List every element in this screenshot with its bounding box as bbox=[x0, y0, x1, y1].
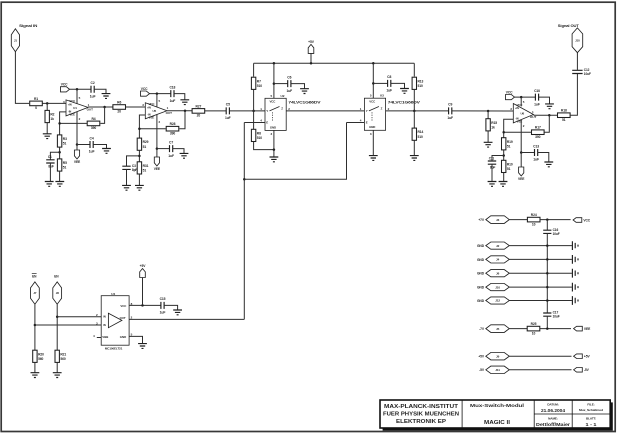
svg-text:J10: J10 bbox=[575, 39, 580, 43]
wire J3 to R24 bbox=[509, 219, 527, 221]
wire R15 to ground bbox=[487, 131, 489, 142]
wire R7 to signal line bbox=[253, 89, 255, 111]
resistor R18 bbox=[558, 113, 571, 118]
svg-text:VEE: VEE bbox=[154, 167, 161, 171]
capacitor C9 bbox=[449, 107, 452, 114]
resistor R2 bbox=[45, 110, 49, 122]
ground below U3 bbox=[369, 156, 378, 161]
ground right of C15 bbox=[173, 310, 182, 315]
svg-text:R3: R3 bbox=[63, 137, 67, 141]
node signal R7-R8 bias bbox=[252, 110, 255, 113]
svg-text:R8: R8 bbox=[257, 131, 261, 135]
svg-text:NAME:: NAME: bbox=[548, 416, 558, 420]
svg-text:R14: R14 bbox=[418, 130, 424, 134]
wire J7 down bbox=[34, 304, 36, 350]
supply VCC flag stage1 bbox=[61, 87, 70, 92]
ground below R2 bbox=[43, 134, 52, 139]
svg-text:1uF: 1uF bbox=[386, 89, 392, 93]
svg-text:C9: C9 bbox=[448, 103, 452, 107]
resistor R14 bbox=[412, 128, 416, 140]
svg-text:51: 51 bbox=[507, 144, 511, 148]
svg-text:10: 10 bbox=[532, 331, 536, 335]
resistor R29 bbox=[137, 138, 141, 150]
svg-text:51: 51 bbox=[63, 166, 67, 170]
node R19-R10-C11 bbox=[502, 154, 505, 157]
svg-text:R28: R28 bbox=[170, 122, 176, 126]
svg-text:GND: GND bbox=[270, 125, 276, 129]
capacitor C1 bbox=[46, 160, 54, 163]
wire rail down to R7 bbox=[253, 63, 255, 76]
node R29-R31-C3 bbox=[138, 155, 141, 158]
node VCC-C18-pin5 stage2 bbox=[156, 92, 159, 95]
capacitor C16 bbox=[543, 230, 551, 233]
capacitor C17 bbox=[543, 313, 551, 316]
node OUT1-R4 bbox=[103, 106, 106, 109]
capacitor C12 bbox=[572, 70, 582, 73]
svg-text:C2: C2 bbox=[91, 81, 95, 85]
capacitor C3 bbox=[122, 166, 130, 169]
svg-text:IN: IN bbox=[103, 315, 106, 319]
connector J4 bbox=[486, 256, 510, 263]
wire U3 E stub bbox=[347, 122, 365, 124]
wire comparator out to enable net bbox=[129, 318, 244, 320]
analog switch U3 74LVC1G66DV bbox=[364, 98, 385, 130]
svg-text:OUT: OUT bbox=[166, 111, 173, 115]
svg-text:J5: J5 bbox=[496, 327, 500, 331]
svg-text:U1: U1 bbox=[73, 106, 77, 110]
svg-text:E: E bbox=[266, 121, 268, 125]
ground right of C2 bbox=[102, 94, 111, 99]
svg-text:+5V: +5V bbox=[140, 264, 147, 268]
wire C3 to ground bbox=[126, 169, 128, 185]
resistor R27 bbox=[192, 109, 205, 114]
svg-text:VCC: VCC bbox=[369, 100, 376, 104]
svg-text:DATUM:: DATUM: bbox=[547, 402, 558, 406]
ground right of C18 bbox=[180, 100, 189, 105]
svg-text:U4: U4 bbox=[111, 292, 115, 296]
svg-text:Y: Y bbox=[366, 109, 368, 113]
wire R28 left to -IN node stage2 bbox=[139, 128, 165, 130]
svg-text:C4: C4 bbox=[90, 136, 94, 140]
svg-text:510: 510 bbox=[257, 84, 262, 88]
wire -IN loop stage2 bbox=[139, 115, 145, 138]
resistor R31 bbox=[137, 162, 141, 174]
svg-text:R21: R21 bbox=[60, 352, 66, 356]
ground below R14 bbox=[410, 156, 419, 161]
wire J5 to R25 bbox=[509, 328, 527, 330]
svg-text:R24: R24 bbox=[531, 213, 537, 217]
svg-text:51: 51 bbox=[143, 145, 147, 149]
wire U2 gnd pin3 bbox=[273, 130, 275, 157]
svg-text:R25: R25 bbox=[531, 322, 537, 326]
svg-text:R20: R20 bbox=[38, 352, 44, 356]
svg-text:C5: C5 bbox=[226, 103, 230, 107]
node J8 tap bbox=[56, 315, 59, 318]
wire OUT2 to R27 bbox=[192, 110, 226, 112]
svg-text:R13: R13 bbox=[418, 79, 424, 83]
svg-text:BLATT:: BLATT: bbox=[586, 416, 596, 420]
svg-text:C11: C11 bbox=[489, 156, 495, 160]
svg-text:GND: GND bbox=[477, 299, 485, 303]
node R15 tap bbox=[487, 110, 490, 113]
wire bus to C16 bbox=[546, 220, 548, 231]
wire C9 to U6 bbox=[452, 110, 514, 112]
wire R17 left to -IN node stage3 bbox=[504, 131, 532, 133]
wire OUT3 to R17 bbox=[544, 115, 549, 132]
node OUT3-R17 bbox=[548, 114, 551, 117]
wire R19 to R10 bbox=[503, 150, 505, 161]
svg-text:21.06.2004: 21.06.2004 bbox=[541, 408, 565, 413]
svg-text:R19: R19 bbox=[507, 140, 513, 144]
wire C11 to ground bbox=[491, 164, 493, 181]
svg-text:VCC: VCC bbox=[61, 83, 68, 87]
svg-text:MAGIC II: MAGIC II bbox=[484, 420, 510, 426]
svg-text:Z: Z bbox=[381, 107, 383, 111]
svg-text:U6: U6 bbox=[520, 111, 524, 115]
svg-text:Dettloff/Maier: Dettloff/Maier bbox=[536, 422, 570, 427]
node bus J2 bbox=[546, 244, 549, 247]
wire C4 to ground bbox=[93, 145, 106, 149]
svg-text:Mux_Schaltmod: Mux_Schaltmod bbox=[579, 408, 603, 412]
svg-text:390: 390 bbox=[91, 126, 97, 130]
ground right of C7 bbox=[180, 153, 189, 158]
node OUT2-R28 bbox=[184, 109, 187, 112]
node bus J4 bbox=[546, 258, 549, 261]
connector J2 bbox=[486, 242, 510, 249]
svg-text:R1: R1 bbox=[34, 97, 38, 101]
supply VCC flag stage3 bbox=[506, 95, 515, 100]
svg-text:51: 51 bbox=[143, 169, 147, 173]
wire pin5 stage2 bbox=[156, 94, 158, 108]
resistor R24 bbox=[527, 217, 540, 222]
wire R8 to U2 gnd net bbox=[254, 142, 274, 150]
node rail U3 vcc bbox=[372, 62, 375, 65]
svg-text:+7V: +7V bbox=[478, 218, 485, 222]
ground below R21 bbox=[53, 373, 62, 378]
ground right of J4 bbox=[572, 255, 578, 264]
svg-text:FUER PHYSIK MUENCHEN: FUER PHYSIK MUENCHEN bbox=[383, 412, 459, 418]
wire U3 gnd pin3 bbox=[372, 130, 374, 155]
wire tap to C8 bbox=[373, 82, 387, 84]
wire R21 to ground bbox=[56, 362, 58, 372]
wire R5 to ground bbox=[59, 171, 61, 181]
svg-text:1uF: 1uF bbox=[533, 158, 539, 162]
connector J5 bbox=[486, 325, 510, 333]
wire U6 pin2 down bbox=[520, 120, 522, 153]
capacitor C13 bbox=[535, 149, 538, 156]
resistor R5 bbox=[57, 159, 61, 171]
node VEE junction stage3 bbox=[520, 151, 523, 154]
wire J10 to ground bbox=[509, 286, 572, 288]
pin4 VBB stub bbox=[97, 337, 101, 339]
svg-text:8pF: 8pF bbox=[132, 168, 138, 172]
svg-text:+5V: +5V bbox=[584, 355, 591, 359]
wire junction to C11 bbox=[492, 156, 504, 162]
resistor R17 bbox=[532, 130, 545, 135]
svg-text:390: 390 bbox=[535, 135, 541, 139]
connector J7 bbox=[31, 282, 40, 304]
resistor R25 bbox=[527, 326, 540, 331]
svg-text:51: 51 bbox=[507, 167, 511, 171]
wire signal to R8 bbox=[253, 111, 255, 129]
op-amp U6 bbox=[513, 104, 533, 123]
svg-text:560: 560 bbox=[60, 357, 65, 361]
svg-text:J8: J8 bbox=[56, 291, 60, 295]
svg-text:GND: GND bbox=[477, 258, 485, 262]
connector J11 bbox=[486, 366, 510, 373]
svg-text:OUT: OUT bbox=[120, 316, 126, 320]
svg-text:J7: J7 bbox=[33, 291, 37, 295]
wire VEE node to C4 bbox=[77, 144, 90, 146]
wire enable net U2 bbox=[243, 123, 245, 320]
svg-text:1uF: 1uF bbox=[89, 150, 95, 154]
analog switch U2 74LVC1G66DV bbox=[265, 98, 286, 130]
wire pin5 stage3 bbox=[520, 97, 522, 106]
wire U5 pin2 down bbox=[156, 114, 158, 148]
wire junction to C3 bbox=[127, 156, 140, 166]
wire U4 vcc pin8 bbox=[129, 304, 161, 306]
wire enable net to U3 bbox=[244, 123, 346, 180]
connector J9 bbox=[486, 353, 510, 360]
svg-text:560: 560 bbox=[38, 357, 43, 361]
wire C6 to ground bbox=[291, 84, 305, 89]
svg-text:U5: U5 bbox=[152, 109, 156, 113]
supply capsule -5V bbox=[574, 368, 583, 373]
svg-text:E: E bbox=[366, 121, 368, 125]
svg-text:C8: C8 bbox=[387, 75, 391, 79]
svg-text:+IN: +IN bbox=[68, 103, 72, 107]
svg-text:MAX-PLANCK-INSTITUT: MAX-PLANCK-INSTITUT bbox=[384, 404, 459, 410]
ground below U2 bbox=[270, 157, 279, 162]
svg-text:1uF: 1uF bbox=[534, 102, 540, 106]
wire R25 to VEE capsule bbox=[540, 328, 571, 330]
wire C8 to ground bbox=[391, 83, 405, 88]
wire R14 to ground bbox=[413, 140, 415, 155]
wire R3 to R5 bbox=[59, 147, 61, 159]
svg-text:GND: GND bbox=[477, 286, 485, 290]
node VCC-C2-pin5 bbox=[76, 88, 79, 91]
wire VCC to C2 and pin5 bbox=[70, 88, 92, 90]
svg-text:C10: C10 bbox=[534, 89, 540, 93]
resistor R21 bbox=[55, 350, 59, 362]
svg-text:VCC: VCC bbox=[120, 304, 127, 308]
svg-text:+IN: +IN bbox=[515, 106, 519, 110]
svg-text:J1: J1 bbox=[14, 39, 18, 43]
wire VEE node to C13 bbox=[521, 152, 534, 154]
node rail +5V bbox=[310, 62, 313, 65]
wire +5V stem U4 bbox=[142, 278, 144, 306]
svg-text:C1: C1 bbox=[48, 155, 52, 159]
wire J6 to ground bbox=[509, 272, 572, 274]
svg-text:VCC: VCC bbox=[141, 87, 148, 91]
wire tap to C6 bbox=[274, 83, 288, 85]
svg-text:U2: U2 bbox=[281, 94, 285, 98]
svg-text:10uF: 10uF bbox=[584, 72, 591, 76]
wire pin5 up bbox=[76, 89, 78, 104]
connector J10 Signal OUT bbox=[572, 28, 583, 53]
resistor R15 bbox=[486, 119, 490, 131]
svg-text:+5V: +5V bbox=[308, 40, 315, 44]
supply +5V arrow U4 bbox=[140, 269, 146, 278]
wire U4 gnd pin5 bbox=[129, 336, 142, 343]
svg-text:C7: C7 bbox=[169, 140, 173, 144]
svg-text:1uF: 1uF bbox=[447, 116, 453, 120]
wire J4 to ground bbox=[509, 258, 572, 260]
svg-text:1uF: 1uF bbox=[225, 116, 231, 120]
svg-text:R29: R29 bbox=[143, 140, 149, 144]
capacitor C7 bbox=[170, 145, 173, 152]
svg-text:10: 10 bbox=[532, 222, 536, 226]
svg-text:R4: R4 bbox=[91, 117, 95, 121]
svg-text:VCC: VCC bbox=[506, 90, 513, 94]
op-amp U1 bbox=[66, 100, 88, 116]
wire C17 to R25 node bbox=[546, 316, 548, 328]
capacitor C15 bbox=[161, 302, 164, 309]
svg-text:J12: J12 bbox=[495, 299, 500, 303]
wire +5V rail bbox=[254, 62, 415, 64]
svg-text:+5V: +5V bbox=[478, 355, 485, 359]
svg-text:Y: Y bbox=[266, 109, 268, 113]
connector J1 bbox=[11, 29, 19, 52]
wire R2 to ground bbox=[46, 123, 48, 134]
wire R10 to ground bbox=[503, 173, 505, 182]
capacitor C18 bbox=[171, 90, 174, 97]
ground right of J10 bbox=[572, 283, 578, 292]
svg-text:74LVC1G66DV: 74LVC1G66DV bbox=[388, 101, 421, 105]
svg-text:OUT: OUT bbox=[87, 107, 94, 111]
connector J12 bbox=[486, 297, 510, 304]
wire J11 to -5V capsule bbox=[509, 369, 571, 371]
wire J8 to pin2 bbox=[57, 316, 101, 318]
wire -IN loop stage3 bbox=[504, 119, 514, 138]
resistor R10 bbox=[502, 160, 506, 172]
svg-text:ELEKTRONIK EP: ELEKTRONIK EP bbox=[396, 419, 447, 425]
svg-text:Signal OUT: Signal OUT bbox=[558, 24, 580, 28]
svg-text:0: 0 bbox=[35, 106, 37, 110]
svg-text:VCC: VCC bbox=[583, 218, 590, 222]
wire C1 to ground bbox=[49, 163, 51, 182]
ground below C3 bbox=[122, 185, 131, 190]
svg-text:Z: Z bbox=[281, 107, 283, 111]
svg-text:20: 20 bbox=[117, 110, 121, 114]
wire Signal IN to R1 bbox=[15, 52, 29, 104]
node feedback junction stage2 bbox=[138, 127, 141, 130]
ground right of C4 bbox=[102, 149, 111, 154]
wire C10 to ground bbox=[539, 97, 550, 104]
svg-text:C6: C6 bbox=[287, 75, 291, 79]
comparator U4 MC100ELT21 bbox=[101, 296, 129, 346]
svg-text:J4: J4 bbox=[496, 258, 500, 262]
svg-text:1k: 1k bbox=[491, 125, 495, 129]
connector J6 bbox=[486, 270, 510, 277]
svg-text:R18: R18 bbox=[561, 109, 567, 113]
wire junction to R2 bbox=[46, 103, 48, 111]
wire J12 to ground bbox=[509, 300, 572, 302]
resistor R8 bbox=[251, 129, 255, 141]
wire signal to R14 bbox=[413, 111, 415, 128]
resistor R3 bbox=[57, 135, 61, 147]
svg-text:J2: J2 bbox=[496, 244, 500, 248]
svg-text:R27: R27 bbox=[195, 104, 201, 108]
capacitor C5 bbox=[226, 107, 229, 114]
node J7 tap bbox=[34, 324, 37, 327]
wire R20 to ground bbox=[34, 362, 36, 372]
svg-text:390: 390 bbox=[170, 131, 176, 135]
wire VEE node to C7 bbox=[157, 148, 170, 150]
svg-text:VEE: VEE bbox=[584, 327, 591, 331]
capacitor C10 bbox=[535, 94, 538, 101]
resistor R1 bbox=[30, 101, 43, 106]
svg-text:VBB: VBB bbox=[102, 335, 108, 339]
wire C16 down bus bbox=[546, 233, 548, 313]
node R1-R2 junction bbox=[46, 102, 49, 105]
wire U1 pin2 down bbox=[76, 112, 78, 145]
node C6 tap bbox=[273, 82, 276, 85]
ground right of C6 bbox=[300, 89, 309, 94]
ground below R31 bbox=[135, 185, 144, 190]
svg-text:1uF: 1uF bbox=[168, 154, 174, 158]
svg-text:J9: J9 bbox=[496, 354, 500, 358]
node R3-R5-C1 bbox=[58, 151, 61, 154]
resistor R20 bbox=[33, 350, 37, 362]
node bus J6 bbox=[546, 272, 549, 275]
node feedback junction bbox=[58, 122, 61, 125]
svg-text:U3: U3 bbox=[380, 94, 384, 98]
wire R18 to C12 bbox=[570, 74, 577, 116]
wire C5 to U2 Y bbox=[229, 110, 265, 112]
wire U2 vcc pin5 bbox=[273, 63, 275, 98]
svg-text:8pF: 8pF bbox=[490, 166, 496, 170]
svg-text:R31: R31 bbox=[143, 164, 149, 168]
connector J10 bbox=[486, 284, 510, 291]
svg-text:R5: R5 bbox=[63, 161, 67, 165]
resistor R19 bbox=[502, 138, 506, 150]
svg-text:74LVC1G66DV: 74LVC1G66DV bbox=[288, 101, 321, 105]
capacitor C6 bbox=[288, 80, 291, 87]
svg-text:FILE:: FILE: bbox=[587, 402, 594, 406]
svg-text:R7: R7 bbox=[257, 79, 261, 83]
node U2 gnd R8 bbox=[273, 148, 276, 151]
svg-text:510: 510 bbox=[257, 136, 262, 140]
svg-text:1uF: 1uF bbox=[170, 99, 176, 103]
svg-text:1 - 1: 1 - 1 bbox=[586, 422, 598, 427]
node rail U2 vcc bbox=[273, 62, 276, 65]
ground below R20 bbox=[31, 373, 40, 378]
node bus J10 bbox=[546, 286, 549, 289]
svg-text:Signal IN: Signal IN bbox=[19, 24, 38, 28]
capacitor C11 bbox=[488, 161, 496, 164]
svg-text:GND: GND bbox=[477, 244, 485, 248]
svg-text:-IN: -IN bbox=[515, 117, 518, 121]
svg-text:VCC: VCC bbox=[269, 100, 276, 104]
ground right of C13 bbox=[544, 162, 553, 167]
svg-text:R10: R10 bbox=[507, 162, 513, 166]
wire U3 Z output bbox=[386, 110, 449, 112]
connector J3 bbox=[486, 216, 510, 224]
svg-text:C13: C13 bbox=[533, 144, 539, 148]
wire J9 to +5V capsule bbox=[509, 355, 571, 357]
svg-text:510: 510 bbox=[418, 84, 423, 88]
svg-text:Mux-Switch-Modul: Mux-Switch-Modul bbox=[470, 403, 524, 409]
svg-text:MC100ELT21: MC100ELT21 bbox=[105, 347, 123, 351]
capacitor C8 bbox=[388, 80, 391, 87]
capacitor C2 bbox=[91, 86, 94, 93]
node VCC-C10-pin5 stage3 bbox=[520, 96, 523, 99]
svg-text:51: 51 bbox=[562, 118, 566, 122]
svg-text:1uF: 1uF bbox=[286, 89, 292, 93]
ground right of J12 bbox=[572, 296, 578, 305]
wire VCC to C10 bbox=[515, 96, 536, 98]
